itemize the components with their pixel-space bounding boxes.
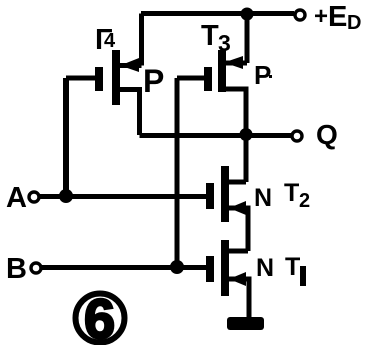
svg-text:B: B xyxy=(6,253,27,285)
transistor T3 xyxy=(204,50,246,134)
gate bar xyxy=(206,183,214,209)
wire Q output line xyxy=(140,133,292,138)
ground xyxy=(227,317,264,330)
source arrow xyxy=(120,58,139,72)
svg-text:D: D xyxy=(347,12,361,34)
wire +ED top rail xyxy=(141,11,294,16)
channel bar xyxy=(218,50,226,92)
wire T4 source to rail xyxy=(120,14,142,66)
svg-text:P: P xyxy=(143,63,164,99)
wire T2 source to T1 drain xyxy=(229,249,248,254)
gate bar xyxy=(206,256,214,282)
label +ED xyxy=(314,1,361,34)
label Q xyxy=(316,119,338,150)
terminal Q xyxy=(292,131,302,141)
source arrow xyxy=(229,201,246,215)
svg-text:4: 4 xyxy=(104,30,116,52)
svg-text:2: 2 xyxy=(299,190,310,212)
node Q junction xyxy=(240,128,253,141)
wire A gate riser xyxy=(63,78,69,196)
label T4 xyxy=(95,24,116,56)
svg-text:Q: Q xyxy=(316,119,338,150)
drain lead xyxy=(120,90,140,136)
svg-text:E: E xyxy=(328,1,347,33)
figure number 6 xyxy=(76,287,125,345)
svg-text:P: P xyxy=(254,60,271,90)
channel bar xyxy=(112,50,120,105)
wire T3 source to junction xyxy=(226,14,247,63)
label A xyxy=(6,182,27,214)
svg-text:6: 6 xyxy=(84,287,115,345)
svg-text:A: A xyxy=(6,182,27,214)
wire Q to T2 drain xyxy=(229,135,246,183)
gate bar xyxy=(95,67,103,91)
wire input B xyxy=(42,265,206,270)
wire B gate riser xyxy=(175,78,180,267)
svg-text:T: T xyxy=(284,179,299,207)
label N of T2 xyxy=(254,184,272,212)
terminal A xyxy=(29,192,39,202)
source lead xyxy=(229,208,248,251)
wire input A xyxy=(40,194,206,199)
wire T4 gate xyxy=(66,76,95,81)
label N of T1 xyxy=(256,254,274,282)
channel bar xyxy=(221,166,229,222)
source lead xyxy=(229,279,249,318)
drain lead xyxy=(226,89,246,134)
wire T3 gate xyxy=(177,76,204,81)
svg-text:+: + xyxy=(314,3,328,30)
svg-text:T: T xyxy=(201,20,219,52)
source arrow xyxy=(229,272,246,286)
source arrow xyxy=(224,56,243,69)
label T2 xyxy=(284,179,310,212)
label T1 xyxy=(285,253,306,286)
transistor T4 xyxy=(95,50,140,135)
node A junction xyxy=(59,189,73,203)
svg-text:3: 3 xyxy=(218,30,231,56)
label B xyxy=(6,253,27,285)
label T3 xyxy=(201,20,231,56)
node B junction xyxy=(170,260,184,274)
label P of T4 xyxy=(143,63,164,99)
terminal +ED xyxy=(295,10,305,20)
svg-text:T: T xyxy=(285,253,300,281)
channel bar xyxy=(221,240,229,296)
gate bar xyxy=(204,67,212,91)
svg-text:N: N xyxy=(256,254,274,282)
node junction at top rail xyxy=(241,8,254,21)
transistor T2 xyxy=(206,166,248,251)
terminal B xyxy=(31,263,41,273)
transistor T1 xyxy=(206,240,249,318)
svg-text:N: N xyxy=(254,184,272,212)
label P of T3 xyxy=(254,60,272,90)
